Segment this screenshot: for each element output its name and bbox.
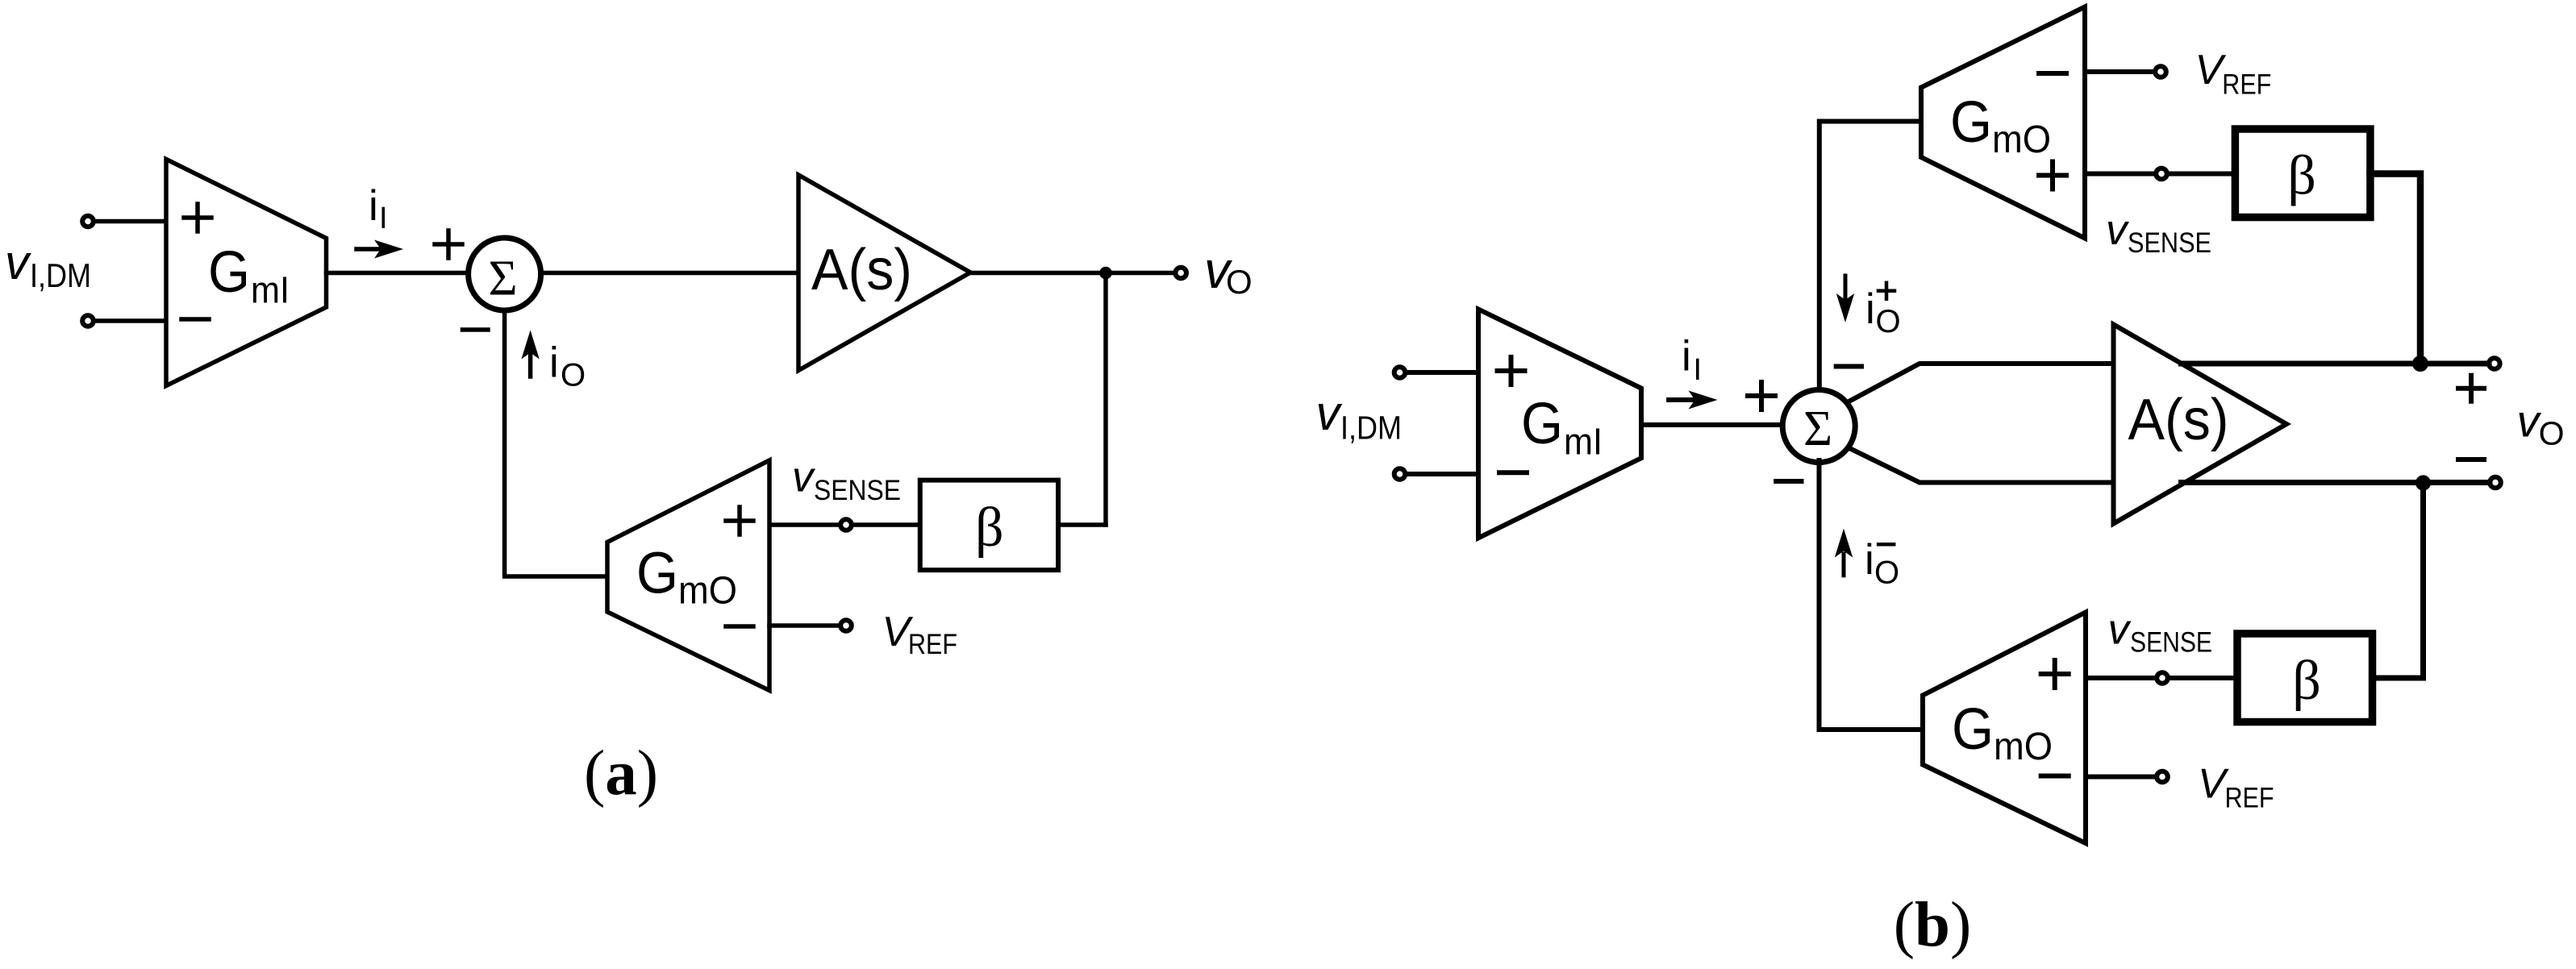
output plus sign (b) [2458, 376, 2484, 401]
summer minus bottom (b) [1776, 479, 1801, 484]
amplifier A(s) (a) [798, 175, 970, 371]
transconductor GmI (a) [166, 160, 327, 386]
svg-text:G: G [1952, 697, 1994, 762]
svg-text:i: i [549, 339, 559, 387]
summer Sigma (b) [1782, 390, 1855, 463]
svg-text:I,DM: I,DM [1340, 409, 1402, 446]
svg-text:mO: mO [678, 570, 737, 613]
wire input- to GmI (b) [1407, 472, 1478, 476]
wire summer diagonal to A(s) top (b) [1843, 364, 2115, 405]
wire vSENSE terminal to beta bottom (b) [2169, 676, 2238, 680]
svg-text:Σ: Σ [488, 252, 517, 306]
wire GmO bottom to vSENSE terminal (b) [2086, 676, 2157, 680]
label vSENSE bottom (b) [2108, 606, 2213, 659]
svg-text:O: O [2539, 415, 2565, 452]
wire vSENSE terminal to GmO (a) [769, 522, 840, 527]
node vSENSE terminal (a) [840, 519, 852, 530]
svg-text:β: β [975, 497, 1004, 559]
wire summer up to top GmO (b) [1819, 122, 1921, 391]
svg-text:β: β [2292, 650, 2321, 712]
arrow iI (b) [1669, 397, 1695, 402]
wire summer to A(s) (a) [541, 271, 799, 276]
node vO terminal - (b) [2490, 477, 2501, 489]
label GmO (a) [636, 542, 737, 613]
wire GmI output to summer (a) [327, 271, 469, 276]
GmO minus input sign (a) [726, 624, 753, 629]
node vI,DM input terminal - (b) [1394, 468, 1406, 480]
svg-text:Σ: Σ [1803, 401, 1832, 456]
svg-text:REF: REF [908, 629, 957, 660]
label iO+ (b) [1865, 285, 1901, 339]
amplifier A(s) (b) [2114, 325, 2287, 524]
label vO (b) [2517, 396, 2565, 452]
label iO- (b) [1865, 536, 1899, 590]
caption (a) [584, 738, 658, 809]
svg-text:I,DM: I,DM [30, 256, 91, 294]
label VREF bottom (b) [2198, 761, 2274, 814]
svg-text:O: O [1876, 304, 1901, 339]
label vSENSE top (b) [2106, 206, 2211, 259]
svg-text:i: i [1682, 333, 1691, 381]
svg-text:A(s): A(s) [811, 238, 912, 302]
svg-text:(a): (a) [584, 738, 658, 809]
GmI minus input sign (a) [181, 317, 209, 322]
label VREF (a) [882, 609, 958, 660]
transconductor GmO (a) [607, 460, 769, 691]
node vO terminal + (b) [2489, 358, 2500, 369]
node output junction dot (a) [1099, 267, 1112, 280]
svg-text:A(s): A(s) [2128, 388, 2229, 452]
svg-text:mO: mO [1994, 726, 2053, 768]
arrow iI (a) [356, 247, 382, 252]
node vSENSE terminal bottom (b) [2157, 672, 2168, 684]
label VREF top (b) [2195, 47, 2272, 100]
wire vSENSE terminal to beta top (b) [2168, 172, 2236, 177]
arrow iO up (a) [528, 352, 533, 376]
svg-text:v: v [2106, 206, 2130, 254]
wire GmO top to VREF terminal (b) [2085, 69, 2155, 74]
label vI,DM (a) [5, 235, 91, 294]
wire feedback vertical (a) [1103, 273, 1108, 526]
node output junction dot bottom (b) [2416, 475, 2431, 490]
wire GmO bottom to VREF terminal (b) [2086, 775, 2157, 780]
svg-text:REF: REF [2222, 69, 2271, 100]
node VREF terminal top (b) [2155, 66, 2166, 77]
label iI current (a) [369, 182, 388, 235]
label GmI (b) [1521, 392, 1603, 463]
svg-text:O: O [1226, 263, 1253, 301]
summer plus sign (a) [435, 231, 462, 258]
GmI plus input sign (b) [1498, 357, 1525, 385]
label vI,DM (b) [1316, 386, 1403, 446]
svg-text:G: G [636, 542, 678, 606]
svg-text:mO: mO [1992, 119, 2051, 161]
arrow iO- up (b) [1842, 554, 1846, 576]
arrow iO+ down (b) [1844, 276, 1848, 300]
svg-text:SENSE: SENSE [2130, 627, 2212, 659]
node VREF terminal bottom (b) [2157, 771, 2168, 783]
label iI current (b) [1682, 333, 1702, 387]
summer Sigma (a) [469, 238, 541, 310]
wire GmO top to vSENSE terminal (b) [2085, 172, 2155, 177]
wire feedback to beta (a) [1058, 522, 1106, 527]
wire GmI output to summer (b) [1641, 422, 1783, 427]
GmO bottom plus sign (b) [2041, 660, 2069, 688]
svg-text:β: β [2287, 145, 2316, 207]
wire beta top to output node (b) [2370, 174, 2421, 361]
wire summer diagonal to A(s) bottom (b) [1844, 446, 2115, 483]
svg-text:v: v [2108, 606, 2132, 654]
svg-text:REF: REF [2225, 783, 2274, 814]
GmI plus input sign (a) [184, 204, 211, 231]
node vI,DM input terminal - (a) [82, 315, 94, 326]
label iO current (a) [549, 339, 586, 393]
GmO plus input sign (a) [726, 507, 753, 534]
wire input+ to GmI (b) [1407, 370, 1478, 375]
summer minus top (b) [1836, 364, 1861, 369]
svg-text:G: G [208, 240, 250, 305]
wire GmO to VREF terminal (a) [769, 623, 840, 628]
svg-text:v: v [5, 235, 31, 289]
node output junction dot top (b) [2412, 356, 2428, 372]
wire A(s) bottom output (b) [2182, 480, 2491, 485]
node vO terminal (a) [1175, 268, 1186, 279]
node VREF terminal (a) [840, 620, 852, 631]
svg-text:v: v [792, 453, 816, 501]
svg-text:I: I [1694, 353, 1703, 387]
node vI,DM input terminal + (a) [82, 216, 94, 227]
svg-text:mI: mI [251, 269, 290, 311]
GmO top plus sign (b) [2039, 162, 2066, 189]
label GmO top (b) [1950, 90, 2051, 161]
wire summer down (a) [505, 310, 607, 576]
block beta (a) [920, 480, 1058, 571]
svg-text:i: i [369, 182, 378, 230]
label GmO bottom (b) [1952, 697, 2053, 768]
svg-text:I: I [379, 202, 388, 235]
node vSENSE terminal top (b) [2156, 168, 2167, 180]
wire beta bottom to output node (b) [2372, 486, 2424, 678]
svg-text:v: v [1316, 386, 1343, 440]
GmO top minus sign (b) [2039, 71, 2066, 76]
summer minus sign (a) [463, 327, 489, 332]
svg-text:i: i [1865, 536, 1874, 584]
block beta bottom (b) [2237, 634, 2373, 722]
wire input- to GmI (a) [95, 318, 166, 323]
svg-text:i: i [1865, 285, 1875, 333]
GmO bottom minus sign (b) [2041, 774, 2069, 779]
wire input+ to GmI (a) [95, 219, 166, 224]
transconductor GmO bottom (b) [1923, 613, 2086, 844]
wire summer down to bottom GmO (b) [1819, 460, 1924, 730]
label GmI (a) [208, 240, 290, 311]
transconductor GmI (b) [1478, 310, 1641, 539]
svg-text:SENSE: SENSE [2128, 227, 2211, 259]
label vSENSE (a) [792, 453, 901, 505]
svg-text:mI: mI [1564, 421, 1603, 463]
output minus sign (b) [2458, 457, 2484, 462]
caption (b) [1894, 890, 1972, 960]
svg-text:(b): (b) [1894, 890, 1972, 960]
svg-text:O: O [561, 358, 586, 393]
wire beta to vSENSE terminal (a) [852, 522, 920, 527]
summer plus sign (b) [1748, 382, 1775, 410]
block beta top (b) [2235, 129, 2370, 218]
svg-text:G: G [1950, 90, 1992, 155]
svg-text:G: G [1521, 392, 1563, 456]
wire A(s) output to vO terminal (a) [970, 271, 1173, 276]
wire A(s) top output (b) [2182, 361, 2490, 367]
GmI minus input sign (b) [1499, 470, 1527, 475]
label vO (a) [1204, 241, 1253, 301]
transconductor GmO top (b) [1921, 7, 2085, 239]
svg-text:O: O [1874, 555, 1899, 591]
node vI,DM input terminal + (b) [1394, 367, 1406, 378]
svg-text:SENSE: SENSE [814, 475, 901, 506]
